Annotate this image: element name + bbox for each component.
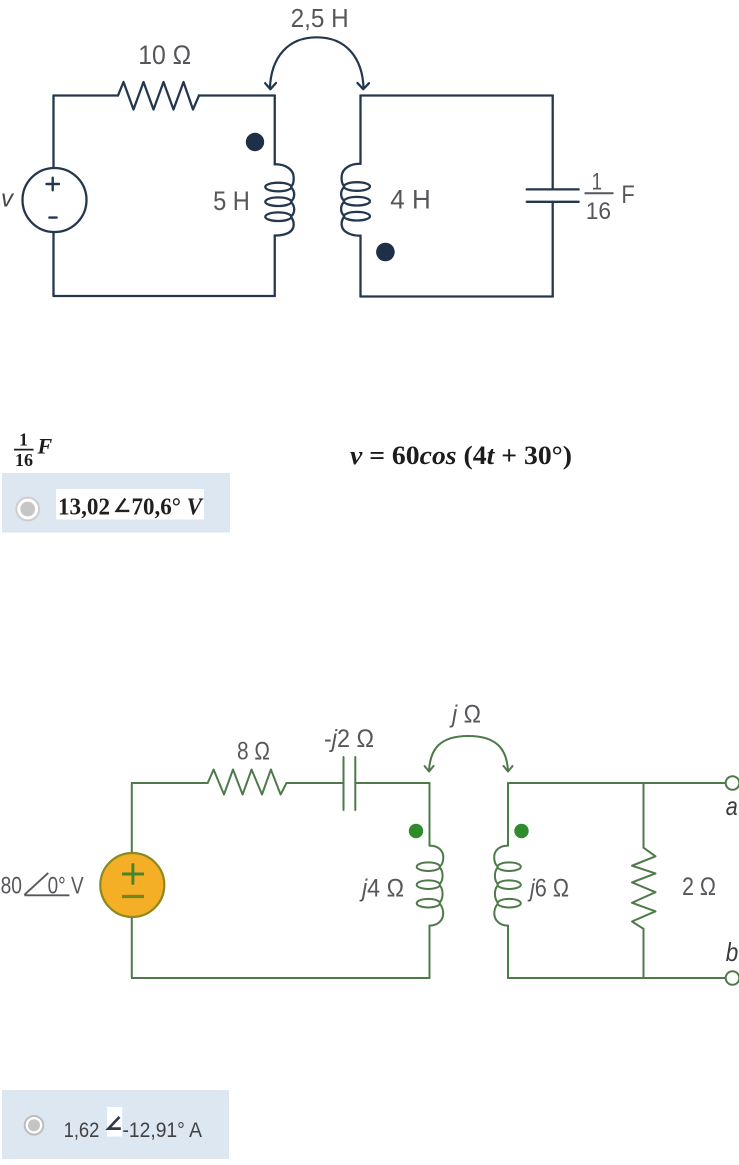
dot marker L1	[246, 133, 264, 151]
wire: c2 top right to terminal a	[508, 782, 726, 784]
option2 angle symbol	[108, 1117, 120, 1129]
option1 angle symbol	[117, 499, 130, 511]
option1 answer text	[58, 495, 204, 521]
option1 white text box	[56, 489, 204, 520]
svg-text:8 Ω: 8 Ω	[237, 737, 270, 765]
option2 background	[2, 1090, 229, 1159]
inductor j6	[494, 846, 521, 926]
wire: loop1 left vertical bottom	[52, 232, 54, 296]
arrowhead right of 2,5H arc	[358, 83, 370, 89]
wire: c2 top segment 1	[132, 782, 208, 784]
wire: c2 coil1 vertical top	[429, 783, 431, 846]
wire: loop1 bottom	[54, 295, 275, 297]
wire: c2 top segment 3	[355, 782, 429, 784]
option2 white angle box	[107, 1107, 122, 1137]
inductor L2 4H	[341, 164, 370, 236]
svg-text:4 H: 4 H	[390, 184, 431, 214]
svg-text:2 Ω: 2 Ω	[682, 873, 716, 901]
svg-text:j6 Ω: j6 Ω	[527, 874, 569, 902]
svg-text:10 Ω: 10 Ω	[138, 40, 191, 70]
wire: c2 bottom left	[132, 977, 430, 979]
option2 answer text	[64, 1118, 203, 1142]
label 1/16 F fraction	[586, 168, 611, 225]
terminal a	[726, 776, 739, 790]
wire: loop1 top right segment	[199, 94, 275, 96]
wire: loop1 right vertical top	[274, 96, 276, 165]
svg-text:v = 60cos (4t + 30°): v = 60cos (4t + 30°)	[350, 441, 572, 470]
source V2 circle	[100, 853, 164, 917]
arrowhead right of j arc	[504, 766, 513, 772]
wire: loop1 left vertical top	[52, 96, 54, 169]
capacitor -j2 plates	[344, 757, 356, 810]
svg-text:-j2 Ω: -j2 Ω	[324, 725, 374, 753]
arrowhead left of 2,5H arc	[265, 83, 276, 89]
source V1 circle	[23, 168, 87, 232]
source V2 minus	[122, 895, 144, 898]
resistor 2 ohm	[632, 848, 656, 929]
capacitor C1 1/16F plates	[527, 189, 579, 201]
wire: loop2 right vertical bottom	[552, 202, 554, 297]
svg-text:1: 1	[592, 168, 602, 195]
mutual coupling arc jOhm	[429, 736, 508, 771]
inductor L1 5H	[265, 164, 294, 235]
source V1 minus	[49, 216, 56, 218]
dot marker j6	[514, 824, 528, 838]
svg-text:2,5 H: 2,5 H	[291, 5, 349, 33]
wire: loop2 left vertical bottom	[359, 236, 361, 297]
svg-text:j4 Ω: j4 Ω	[359, 875, 404, 903]
source V1 plus	[47, 178, 60, 191]
dot marker L2	[376, 243, 395, 262]
wire: c2 left vertical top	[131, 783, 133, 853]
svg-text:v: v	[1, 186, 15, 213]
wire: loop1 top left segment	[54, 94, 119, 96]
svg-text:5 H: 5 H	[213, 186, 250, 216]
svg-text:b: b	[726, 937, 739, 967]
mutual coupling arc M 2,5H	[270, 37, 364, 88]
wire: 2ohm branch bottom	[643, 929, 645, 978]
wire: c2 left vertical bottom	[131, 917, 133, 978]
wire: c2 top segment 2	[287, 782, 344, 784]
svg-text:13,02: 13,02	[58, 495, 110, 521]
svg-text:1: 1	[19, 430, 28, 450]
svg-text:1,62: 1,62	[64, 1118, 100, 1142]
wire: loop2 left vertical top	[359, 96, 361, 164]
resistor R 10ohm	[118, 82, 199, 110]
svg-text:j Ω: j Ω	[449, 701, 481, 729]
svg-text:16: 16	[15, 450, 33, 470]
source V2 plus	[122, 863, 144, 885]
svg-text:80: 80	[1, 873, 22, 900]
dot marker j4	[409, 824, 423, 838]
wire: c2 coil2 vertical bottom	[507, 926, 509, 978]
wire: 2ohm branch top	[643, 783, 645, 848]
svg-text:F: F	[621, 181, 634, 209]
option1 background	[2, 473, 230, 533]
svg-text:70,6° V: 70,6° V	[132, 495, 204, 521]
wire: c2 coil2 vertical top	[507, 783, 509, 846]
option1 radio	[16, 498, 39, 521]
svg-text:F: F	[37, 434, 53, 459]
wire: loop2 top	[361, 94, 553, 96]
svg-text:a: a	[726, 791, 738, 821]
inductor j4	[417, 846, 444, 926]
labels circuit 2	[1, 701, 739, 968]
option2 radio	[25, 1116, 44, 1135]
wire: loop2 bottom	[361, 295, 553, 297]
labels circuit 1	[1, 5, 635, 225]
wire: c2 coil1 vertical bottom	[429, 926, 431, 978]
terminal b	[726, 971, 739, 985]
svg-text:16: 16	[586, 198, 611, 225]
resistor 8 ohm	[208, 770, 287, 795]
wire: c2 bottom right to terminal b	[508, 977, 726, 979]
wire: loop1 right vertical bottom	[274, 236, 276, 297]
svg-text:-12,91° A: -12,91° A	[123, 1118, 203, 1142]
arrowhead left of j arc	[425, 766, 434, 772]
wire: loop2 right vertical top	[552, 96, 554, 190]
